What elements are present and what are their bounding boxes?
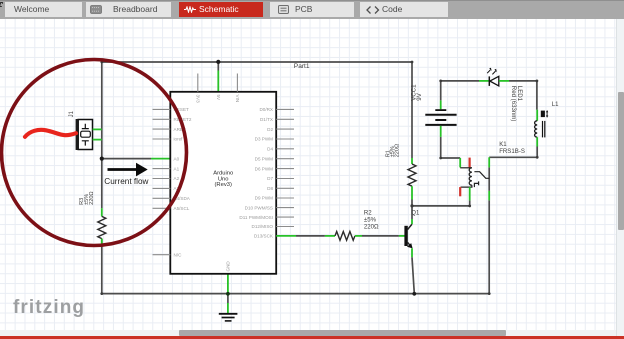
tab Welcome — [5, 2, 82, 17]
fritzing f window icon — [0, 0, 2, 19]
wire: rail to ground symbol — [227, 294, 229, 303]
pushbutton J1 — [69, 110, 102, 150]
svg-text:D9 PWM: D9 PWM — [255, 196, 274, 201]
wire: L1 coil bottom to relay common — [489, 147, 537, 158]
tab bar — [0, 0, 624, 19]
inductor L1 (relay coil core) — [535, 102, 560, 147]
svg-text:D8: D8 — [267, 186, 273, 191]
tab PCB — [270, 2, 354, 17]
svg-text:D1/TX: D1/TX — [260, 117, 273, 122]
wire: Q1 collector branch to relay coil — [412, 200, 470, 206]
svg-text:A1: A1 — [174, 166, 180, 171]
IC centre label — [213, 170, 233, 188]
wire: A0 to switch column — [102, 158, 151, 160]
svg-text:D2: D2 — [267, 127, 273, 132]
wire: ground rail — [102, 293, 489, 295]
svg-text:K1: K1 — [499, 141, 507, 148]
svg-text:VIN: VIN — [235, 95, 240, 103]
svg-text:GND: GND — [226, 261, 231, 272]
svg-text:A5/SCL: A5/SCL — [174, 206, 190, 211]
svg-text:A0: A0 — [174, 156, 180, 161]
pins left — [153, 109, 171, 254]
svg-text:3V3: 3V3 — [195, 95, 200, 104]
svg-text:D0/RX: D0/RX — [259, 107, 273, 112]
junction node: A0 tap — [100, 157, 104, 161]
wire: D13 to R2 — [296, 235, 325, 237]
wire: R1 to Q1 collector — [411, 200, 413, 220]
svg-text:Part1: Part1 — [294, 63, 310, 70]
svg-text:D12/MISO: D12/MISO — [252, 224, 274, 229]
svg-text:D13/SCK: D13/SCK — [254, 234, 274, 239]
wire: relay common down to rail — [488, 167, 490, 293]
pin labels top rotated — [195, 95, 240, 104]
wire: battery plus up and across to LED — [441, 81, 479, 101]
bendpoint dots — [100, 61, 538, 295]
LED1 — [479, 68, 523, 122]
svg-text:D3 PWM: D3 PWM — [255, 137, 274, 142]
resistor R3 — [79, 191, 106, 247]
junction node: emitter rail tap — [412, 292, 416, 296]
transistor Q1 — [399, 210, 420, 257]
pin labels right — [239, 107, 274, 239]
wire: VCC1 column down to R1 — [411, 62, 413, 158]
wire: R2 to Q1 base — [362, 235, 399, 237]
junction node: GND rail tap — [226, 292, 230, 296]
junction node: 5V tap — [216, 60, 220, 64]
wire: left vertical (switch / R3 column) — [101, 62, 103, 294]
resistor R1 — [385, 144, 416, 200]
vertical scrollbar — [616, 19, 624, 336]
svg-text:Red (633nm): Red (633nm) — [510, 86, 517, 122]
resistor R2 — [325, 210, 379, 241]
annotation circle — [2, 60, 187, 246]
svg-text:ioref: ioref — [174, 137, 184, 142]
svg-text:220Ω: 220Ω — [394, 144, 400, 158]
tab Schematic (active) — [179, 2, 263, 17]
svg-text:D4: D4 — [267, 147, 273, 152]
annotation arrow Current flow — [104, 163, 148, 187]
svg-text:Q1: Q1 — [411, 210, 420, 216]
ground — [219, 314, 238, 321]
pin D13/SCK green — [276, 235, 296, 237]
svg-text:D6 PWM: D6 PWM — [255, 166, 274, 171]
tab Code — [360, 2, 448, 17]
relay K1 — [460, 141, 525, 201]
svg-text:220Ω: 220Ω — [364, 223, 379, 230]
wire: top bus from switch column to VCC column — [102, 61, 412, 63]
annotation red squiggle — [25, 130, 76, 137]
horizontal scrollbar — [0, 330, 616, 336]
battery VCC1 — [410, 84, 456, 137]
wire: Arduino GND down to rail — [227, 274, 229, 294]
pins right — [276, 109, 294, 226]
svg-text:220Ω: 220Ω — [89, 191, 95, 205]
wire: LED cathode to L1 coil column — [509, 81, 537, 110]
svg-text:D10 PWM/SS: D10 PWM/SS — [245, 205, 273, 210]
svg-text:(Rev3): (Rev3) — [214, 182, 231, 188]
svg-text:D11 PWM/MOSI: D11 PWM/MOSI — [239, 215, 273, 220]
svg-text:Current flow: Current flow — [104, 177, 148, 186]
fritzing watermark logo — [13, 297, 85, 319]
pin labels left — [174, 107, 192, 257]
op-amp style IC body: Arduino Uno U1 — [170, 92, 276, 274]
svg-text:A2: A2 — [174, 176, 180, 181]
svg-text:J1: J1 — [69, 110, 75, 117]
svg-text:5V: 5V — [216, 95, 221, 102]
tab Breadboard — [86, 2, 171, 17]
red bottom bar — [0, 336, 624, 339]
svg-text:FRS1B-S: FRS1B-S — [499, 148, 525, 155]
wire: Q1 emitter to rail — [412, 257, 414, 293]
svg-text:D5 PWM: D5 PWM — [255, 156, 274, 161]
pins top 3V3 VIN — [198, 74, 238, 92]
svg-text:D7: D7 — [267, 176, 273, 181]
svg-text:9V: 9V — [416, 92, 423, 100]
svg-text:L1: L1 — [552, 102, 559, 108]
wire: battery minus down to relay coil pin — [441, 137, 461, 158]
wire: 5V drop to Arduino — [217, 62, 219, 71]
svg-text:N/C: N/C — [174, 252, 183, 257]
